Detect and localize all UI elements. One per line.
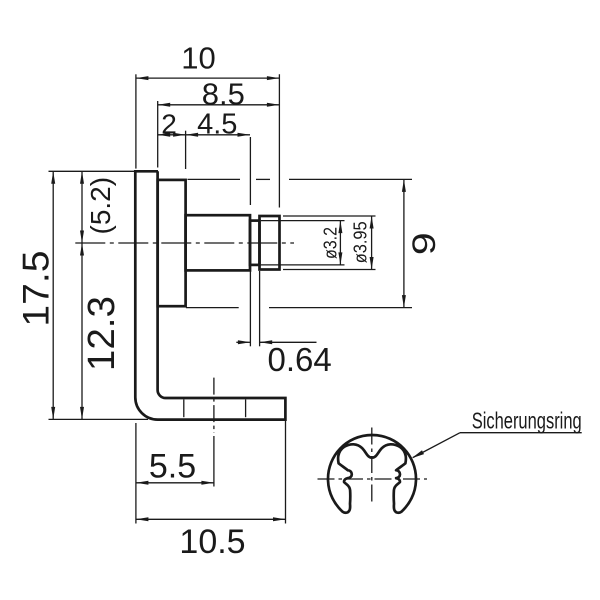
retaining ring (E-clip) outline	[328, 435, 416, 513]
stud cylinder o3.95	[186, 215, 250, 270]
dim o3.2 arrows	[338, 221, 342, 234]
dim 10.5 arrows	[136, 517, 149, 521]
dim 12.3 arrows	[80, 243, 84, 256]
arrowheads	[51, 76, 406, 521]
dimension 17.5 line	[49, 171, 149, 419]
svg-text:10.5: 10.5	[179, 523, 245, 561]
leader arrowhead	[412, 450, 425, 458]
leader line to Sicherungsring	[413, 433, 582, 458]
dimension 10.5 line	[136, 421, 286, 524]
groove o3.2	[250, 221, 260, 265]
bracket outline (L-angle side view)	[135, 171, 285, 419]
dim 5.5 arrows	[136, 481, 149, 485]
svg-text:10: 10	[181, 41, 215, 76]
dim 2 arrows	[158, 133, 171, 137]
svg-text:0.64: 0.64	[267, 341, 331, 378]
dim 17.5 arrows	[51, 171, 55, 184]
dim 0.64 arrows	[238, 340, 251, 344]
dim 4.5 arrows	[186, 133, 199, 137]
svg-text:8.5: 8.5	[202, 77, 245, 112]
svg-text:ø3.2: ø3.2	[320, 227, 340, 259]
dimension (5.2) line	[81, 171, 83, 243]
svg-text:9: 9	[406, 232, 442, 255]
svg-text:5.5: 5.5	[149, 448, 196, 486]
stud tip head o3.95	[260, 216, 280, 270]
svg-text:4.5: 4.5	[197, 109, 237, 141]
svg-text:17.5: 17.5	[16, 251, 57, 327]
svg-text:12.3: 12.3	[81, 296, 123, 371]
hole hidden line right	[245, 400, 247, 418]
dim (5.2) arrows	[80, 171, 84, 184]
dimension 10 line	[136, 74, 280, 207]
svg-text:ø3.95: ø3.95	[351, 221, 371, 263]
dimension 2 line	[158, 134, 186, 136]
dim o3.95 arrows	[370, 216, 374, 229]
dimension 8.5 line	[158, 101, 280, 168]
hole hidden line left	[183, 400, 185, 418]
hole center line	[213, 378, 215, 433]
dimension o3.95 line	[283, 216, 376, 270]
ring vertical center line	[371, 428, 373, 506]
dimension 0.64 line	[236, 266, 316, 346]
dim 8.5 arrows	[158, 103, 171, 107]
svg-text:2: 2	[161, 109, 177, 140]
dimension 9 line	[186, 179, 412, 307]
dimension 12.3 line	[81, 243, 83, 419]
stud axis center line	[75, 242, 294, 244]
ring horizontal center line	[318, 478, 428, 480]
dimension o3.2 line	[261, 221, 345, 265]
flange disc (o9)	[158, 180, 186, 306]
dimension 4.5 line	[186, 131, 251, 205]
dim 9 arrows	[402, 179, 406, 192]
dim 10 arrows	[136, 76, 149, 80]
svg-text:Sicherungsring: Sicherungsring	[472, 407, 582, 433]
dimension 5.5 line	[136, 436, 214, 487]
svg-text:(5.2): (5.2)	[85, 177, 116, 235]
